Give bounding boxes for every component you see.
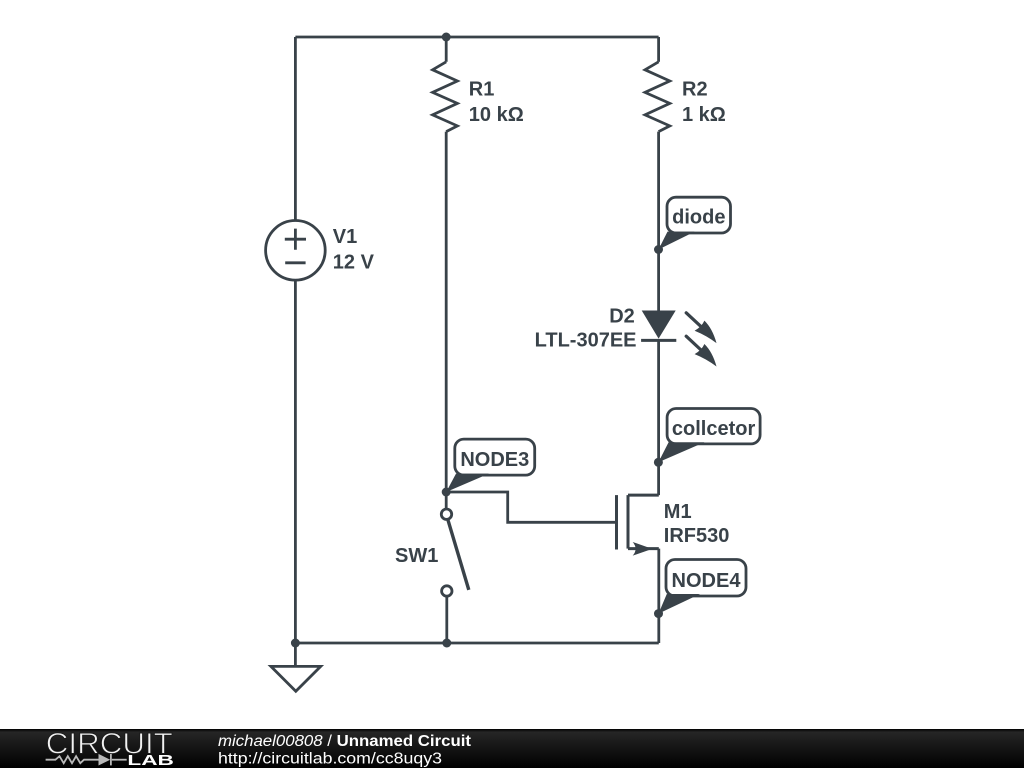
node junction dot bottom rail left: [291, 639, 300, 648]
svg-text:IRF530: IRF530: [664, 525, 730, 547]
svg-text:NODE3: NODE3: [460, 449, 529, 471]
LED light arrow 1: [686, 313, 716, 343]
svg-text:LAB: LAB: [127, 752, 174, 768]
resistor R2: [645, 62, 670, 132]
node dot NODE4: [654, 609, 663, 618]
LED D2 cathode bar: [641, 339, 676, 342]
wire: R1 bottom lead: [445, 132, 448, 492]
logo diode triangle: [99, 754, 111, 766]
callout diode: [659, 197, 731, 249]
voltage source V1: [266, 221, 326, 281]
node junction dot top rail: [442, 33, 451, 42]
svg-text:12 V: 12 V: [333, 252, 375, 274]
wire: V1 bottom lead: [294, 280, 297, 643]
wire: switch top lead: [445, 492, 448, 509]
wire: switch bottom lead: [445, 596, 448, 643]
svg-text:michael00808 / Unnamed Circuit: michael00808 / Unnamed Circuit: [218, 733, 471, 750]
LED light arrow 2: [686, 336, 716, 366]
node junction dot bottom rail switch: [442, 639, 451, 648]
svg-text:R2: R2: [682, 79, 708, 101]
svg-text:diode: diode: [672, 207, 725, 229]
logo resistor-diode glyph: [46, 754, 127, 765]
wire: V1 top lead: [294, 37, 297, 221]
svg-text:D2: D2: [609, 305, 635, 327]
wire: LED cathode to MOSFET drain: [657, 340, 660, 495]
wire: R1 top lead: [445, 37, 448, 62]
ground: [271, 666, 321, 691]
callout NODE3: [446, 439, 535, 492]
MOSFET M1 source arrow: [633, 542, 653, 556]
switch SW1 blade: [448, 520, 469, 590]
svg-text:LTL-307EE: LTL-307EE: [535, 329, 637, 351]
node dot diode: [654, 245, 663, 254]
callout collcetor: [658, 409, 760, 463]
MOSFET M1: [617, 495, 659, 549]
svg-text:http://circuitlab.com/cc8uqy3: http://circuitlab.com/cc8uqy3: [218, 751, 442, 768]
svg-text:M1: M1: [664, 501, 692, 523]
wire: R2 bottom lead to LED: [657, 132, 660, 311]
wire: R2 top lead: [657, 37, 660, 62]
svg-text:1 kΩ: 1 kΩ: [682, 104, 726, 126]
wire: bottom rail: [295, 642, 658, 645]
svg-text:SW1: SW1: [395, 545, 438, 567]
node dot collector: [654, 458, 663, 467]
switch SW1 bottom contact: [442, 586, 452, 596]
wire: MOSFET source to bottom rail: [657, 549, 660, 643]
switch SW1 top contact: [441, 509, 451, 519]
svg-text:R1: R1: [469, 79, 495, 101]
node dot NODE3: [442, 488, 451, 497]
LED D2 triangle: [642, 311, 676, 339]
svg-text:collcetor: collcetor: [672, 418, 756, 440]
svg-text:V1: V1: [333, 226, 357, 248]
wire: gate network from NODE3: [446, 492, 616, 522]
wire: ground stem: [294, 643, 297, 666]
svg-text:10 kΩ: 10 kΩ: [469, 104, 524, 126]
resistor R1: [433, 62, 458, 132]
callout NODE4: [659, 560, 747, 614]
wire: top rail: [295, 36, 658, 39]
svg-text:NODE4: NODE4: [672, 570, 742, 592]
